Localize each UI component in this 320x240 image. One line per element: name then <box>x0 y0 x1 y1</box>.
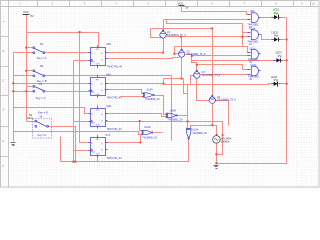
wire x73 vertical <box>74 121 91 123</box>
svg-text:LED1: LED1 <box>273 7 280 11</box>
LED3 (off) <box>274 51 283 63</box>
xnor U4 <box>209 95 237 103</box>
wire VCC to FF1 PRE <box>27 33 99 48</box>
source V1 <box>213 133 232 143</box>
wire long bus y84 left part <box>14 83 91 85</box>
wire AND1 out to LED1 <box>261 17 287 19</box>
svg-text:~CLR: ~CLR <box>95 94 100 96</box>
svg-text:LED2: LED2 <box>272 30 279 34</box>
power VCC1 <box>23 10 34 18</box>
wire V1 bottom to ground <box>216 144 218 165</box>
svg-text:S2: S2 <box>40 64 44 68</box>
sheet border frame <box>1 1 320 188</box>
svg-text:U6A: U6A <box>106 74 111 77</box>
wire U4 bottom to clock line <box>212 104 214 126</box>
svg-text:U12A: U12A <box>144 126 151 129</box>
wire S1 lower stub <box>14 52 34 54</box>
flip-flop U7A <box>89 134 123 160</box>
wire VCC rail vertical from VCC1 <box>26 15 28 122</box>
wire S3 top stub <box>27 86 34 88</box>
wire S2 lower stub <box>14 75 34 77</box>
wire FF4 PRE stub <box>97 135 99 139</box>
xor U12A (D) <box>142 126 158 139</box>
flip-flop U8A <box>89 105 123 131</box>
svg-text:4V: 4V <box>249 43 252 46</box>
wire XOR D in1 from FF3 nQ <box>140 122 142 131</box>
wire left bus vertical <box>13 53 15 132</box>
wire U4 top feed <box>212 29 214 97</box>
xor U14A (B) <box>166 109 184 121</box>
svg-text:F: F <box>3 164 5 168</box>
svg-text:LED4: LED4 <box>271 75 278 79</box>
svg-text:74LS266N_75_4: 74LS266N_75_4 <box>202 74 221 77</box>
wire LED3 feed row <box>192 60 287 62</box>
wire FF4 CLK feed <box>74 150 91 152</box>
wire XOR A out to B in1 <box>155 96 166 115</box>
svg-text:B: B <box>3 49 5 53</box>
flip-flop U5A <box>89 43 123 68</box>
svg-text:10: 10 <box>312 2 316 6</box>
wire S2 top stub <box>27 70 34 72</box>
wire U1 out to AND2 in2 <box>167 36 250 38</box>
svg-text:74LS86D_2V: 74LS86D_2V <box>142 136 157 139</box>
wire FF3 nQ long <box>106 122 223 155</box>
wire FF1 nQ to U2 lower input <box>107 58 180 59</box>
wire FF3 D bus <box>14 108 91 114</box>
LED1 (on) <box>272 7 281 19</box>
wire S3 output row / FF2 CLK <box>14 91 91 93</box>
wire U2 top feed <box>181 37 183 50</box>
svg-text:Key = D: Key = D <box>38 110 48 114</box>
wire FF4 Q to XOR D in2 <box>106 135 141 143</box>
wire U1 left input jog <box>151 29 162 38</box>
wire AND4 in1 bus <box>197 65 250 70</box>
wire XOR A in2 <box>121 96 143 98</box>
wire U2 out jog <box>186 55 197 72</box>
svg-text:S1: S1 <box>40 42 44 46</box>
svg-text:5V: 5V <box>30 14 33 18</box>
wire FF4 D feed <box>80 33 91 143</box>
wire bus y131 <box>14 132 142 135</box>
svg-text:100kHz: 100kHz <box>221 139 231 143</box>
and U16A <box>248 64 261 81</box>
wire U3 left feed <box>191 76 194 85</box>
wire AND3 in2 row <box>192 55 250 57</box>
svg-text:U9A: U9A <box>250 10 255 13</box>
wire VCC2 to AND1 in1 <box>182 12 250 15</box>
svg-text:4V: 4V <box>249 78 252 81</box>
wire U2 bottom jog <box>181 58 183 79</box>
wire V1 top <box>216 126 218 136</box>
xnor U1 <box>160 30 186 38</box>
ruler zone labels <box>3 2 316 168</box>
svg-text:Key = C: Key = C <box>36 96 46 100</box>
wire FF2 nQ to XOR A <box>105 90 143 94</box>
wire S4 top stub <box>27 121 36 123</box>
wire S1 top contact feed <box>27 47 34 49</box>
svg-text:U11A: U11A <box>249 48 255 51</box>
wire XOR D out <box>154 132 163 134</box>
switch S4 selected <box>27 110 52 138</box>
wire LED return bus <box>217 18 287 164</box>
svg-text:U14A: U14A <box>170 109 177 112</box>
svg-text:74HC74D_4V: 74HC74D_4V <box>107 128 123 131</box>
switch S1 <box>33 42 47 60</box>
wire S1 output to FF1 D <box>45 52 91 54</box>
wire AND2 out to LED2 <box>261 35 287 40</box>
svg-text:U7A: U7A <box>105 134 110 137</box>
svg-text:74HC74D_4V: 74HC74D_4V <box>107 157 123 160</box>
LED2 (off) <box>272 30 281 41</box>
wire S4 output down <box>49 127 76 162</box>
wire LED4 row y84 <box>164 84 287 85</box>
wire S2 output to U3 left <box>45 75 172 77</box>
svg-text:~CLR: ~CLR <box>95 153 100 155</box>
xor U15A (C, pointing down) <box>186 128 207 139</box>
svg-text:74LS86D_2V: 74LS86D_2V <box>168 119 183 122</box>
wire U3 out to AND4 in2 <box>201 74 250 76</box>
svg-text:A: A <box>3 20 5 24</box>
wire U4 out <box>215 101 229 126</box>
ground at V1 <box>214 166 219 169</box>
svg-text:Key = D: Key = D <box>38 134 47 137</box>
svg-text:U8A: U8A <box>106 105 111 108</box>
LED4 (off) <box>271 75 281 87</box>
svg-text:74LS266N_75_4: 74LS266N_75_4 <box>186 53 205 56</box>
svg-text:74LS86D_2V: 74LS86D_2V <box>192 132 207 135</box>
svg-text:74LS266N_75_4: 74LS266N_75_4 <box>167 34 186 37</box>
wire x187.5 riser <box>187 85 189 116</box>
wire C in2 from V1 plus <box>191 126 217 136</box>
svg-text:U16A: U16A <box>251 64 257 67</box>
switch S3 <box>33 82 46 100</box>
wire FF4 CLR to bottom bus <box>97 156 99 162</box>
svg-text:VCC: VCC <box>23 10 29 14</box>
svg-text:5V: 5V <box>185 5 188 9</box>
wire S4 bottom vertical <box>60 137 62 162</box>
ground left <box>11 143 16 146</box>
and U9A <box>247 10 260 29</box>
wire FF1 CLK feed <box>74 61 91 162</box>
wire U1 top to AND1 in2 row <box>164 20 250 32</box>
and U10A <box>247 28 260 47</box>
wire upper jog y78.5 <box>164 79 188 94</box>
svg-text:~CLR: ~CLR <box>95 124 100 126</box>
wire long bus y84 right part to LED4 <box>106 83 164 85</box>
svg-text:~CLR: ~CLR <box>95 63 100 65</box>
wire bottom bus to C output <box>61 138 189 162</box>
wire AND2 in1 bus <box>167 20 250 47</box>
wire FF3 PRE stub <box>97 105 99 109</box>
svg-text:74LS86D_2V: 74LS86D_2V <box>145 98 160 101</box>
wire FF3 Q to XOR B in2 <box>106 114 166 117</box>
svg-text:E: E <box>3 139 5 143</box>
xnor U2 <box>178 49 205 57</box>
wire U3 bottom to U4 left <box>197 79 210 101</box>
wire U2 left jog / AND3 in1 bus <box>175 47 250 54</box>
svg-text:Key = A: Key = A <box>37 56 47 60</box>
svg-text:U5A: U5A <box>106 43 111 46</box>
wire FF1 Q to U1 <box>107 39 164 53</box>
svg-text:VCC: VCC <box>178 1 184 5</box>
svg-text:LED3: LED3 <box>275 51 282 55</box>
power VCC2 <box>178 1 189 11</box>
svg-text:S3: S3 <box>39 82 43 86</box>
wire S2 branch down <box>171 76 173 141</box>
svg-text:74HC74D_4V: 74HC74D_4V <box>107 66 123 69</box>
wire FF2 PRE stub <box>97 75 99 78</box>
svg-text:74LS266N_75_4: 74LS266N_75_4 <box>217 99 236 102</box>
wire feedback row to U4 top <box>151 28 213 30</box>
xor U13A (A) <box>143 89 161 102</box>
wire FF2 CLR stub <box>97 96 99 98</box>
wire ground stub left <box>13 132 15 142</box>
svg-text:74HC74D_4V: 74HC74D_4V <box>107 97 123 100</box>
svg-text:U10A: U10A <box>249 28 255 31</box>
svg-text:U13A: U13A <box>146 89 153 92</box>
switch S2 <box>33 64 47 83</box>
wire riser x163.5 <box>163 79 165 85</box>
wire XOR B out to C in1 <box>178 116 188 128</box>
and U11A <box>248 48 261 64</box>
xnor U3 <box>194 70 221 78</box>
flip-flop U6A <box>89 74 123 100</box>
wire FF1 CLR stub <box>97 66 99 69</box>
